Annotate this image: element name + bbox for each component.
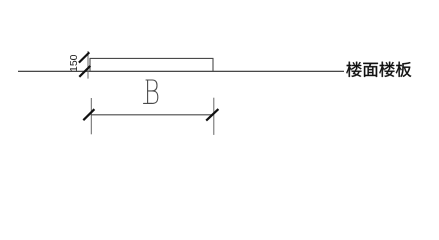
raised slab rectangle (90, 58, 213, 71)
thickness dimension line (vertical) (87, 51, 89, 79)
B dimension line (91, 114, 214, 116)
B dimension right extension line (213, 98, 215, 135)
floor slab line (main horizontal line) (18, 70, 344, 72)
dimension letter B (CAD stroke font) (144, 80, 158, 103)
svg-text:150: 150 (68, 54, 80, 72)
B dimension left extension line (90, 98, 92, 134)
label text 楼面楼板 (floor slab) (346, 62, 411, 77)
tick mark right of B dimension (206, 109, 218, 121)
tick mark bottom of 150 dimension (79, 66, 90, 77)
tick mark top of 150 dimension (79, 52, 89, 62)
tick mark left of B dimension (83, 109, 94, 120)
